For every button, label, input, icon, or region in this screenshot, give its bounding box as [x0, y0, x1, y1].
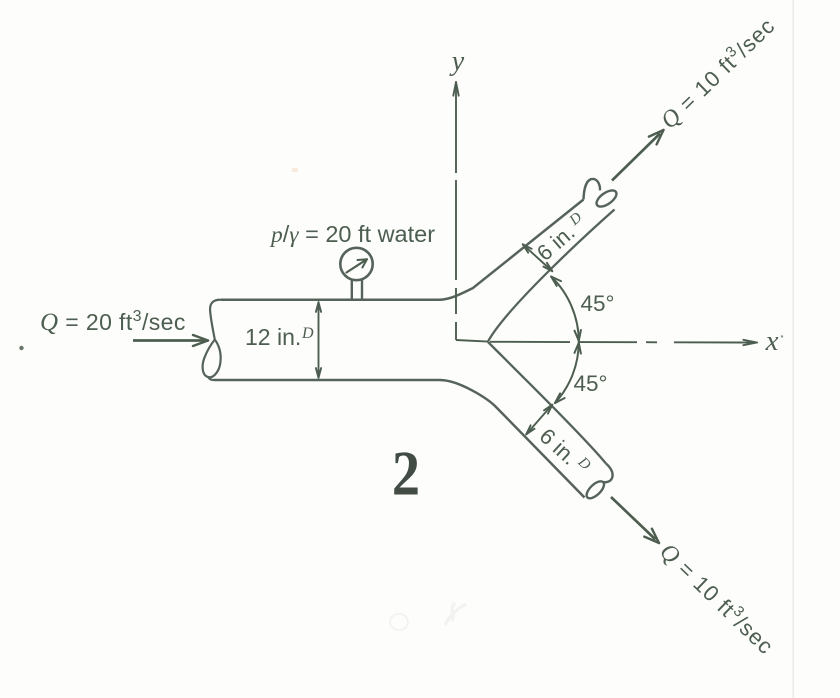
svg-text:45°: 45°	[580, 291, 614, 316]
svg-text:x: x	[765, 325, 779, 357]
svg-text:45°: 45°	[573, 371, 607, 396]
svg-text:Q = 10 ft3/sec: Q = 10 ft3/sec	[654, 537, 780, 660]
svg-text:2: 2	[392, 438, 420, 509]
svg-text:Q = 20 ft3/sec: Q = 20 ft3/sec	[40, 308, 186, 336]
svg-text:y: y	[449, 46, 465, 77]
svg-text:12 in.: 12 in.	[245, 324, 301, 350]
svg-text:D: D	[301, 325, 314, 342]
svg-text:p/γ = 20 ft water: p/γ = 20 ft water	[269, 221, 435, 248]
svg-text:Q = 10 ft3/sec: Q = 10 ft3/sec	[655, 11, 781, 134]
